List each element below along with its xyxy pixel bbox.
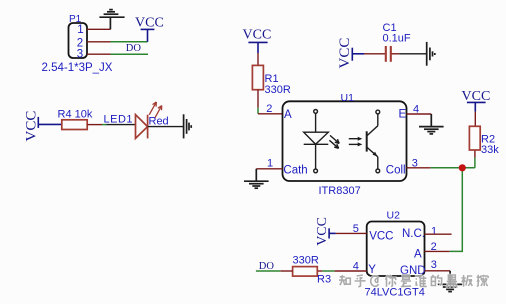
svg-text:1: 1 [77,24,83,36]
capacitor C1 [386,46,391,62]
svg-text:VCC: VCC [337,38,353,69]
svg-text:2: 2 [266,103,272,115]
U2 pin 1 lead (N.C.) [425,233,452,235]
resistor R2 [469,126,480,150]
svg-text:VCC: VCC [24,111,40,142]
wire VCC to R2 [474,112,476,127]
svg-text:VCC: VCC [243,27,272,42]
LED1 anode lead [107,124,136,126]
P1 pin 1 lead [87,28,111,30]
connector P1 [69,23,88,58]
ground (U2 GND) [438,271,463,292]
svg-text:VCC: VCC [369,231,393,243]
resistor R1 [252,65,263,89]
wire P1 pin2 to VCC [111,41,148,43]
svg-text:N.C.: N.C. [402,228,425,240]
svg-text:1: 1 [431,226,437,238]
svg-text:ITR8307: ITR8307 [319,185,361,197]
wire U1 Coll to R2 [431,167,475,169]
svg-text:Coll: Coll [386,165,406,177]
gate U2 [367,222,425,277]
P1 pin 3 lead [87,53,111,55]
svg-text:E: E [399,109,407,121]
ground (U1 Cath) [244,169,269,188]
U2 pin 5 lead [336,232,367,234]
R4 right lead [87,124,102,126]
svg-text:VCC: VCC [315,217,330,246]
U1 internal phototransistor [367,110,380,173]
optocoupler U1 [283,101,407,181]
U1 pin 4 lead [407,113,432,115]
svg-text:U2: U2 [387,210,401,222]
svg-text:0.1uF: 0.1uF [383,33,411,45]
wire U2 pin 2 to junction [450,168,463,252]
resistor R3 [293,267,318,277]
power VCC (top-left) [141,29,155,41]
wire LED1 cathode to ground [148,126,184,128]
P1 pin 2 lead [87,41,111,43]
U2 pin 4 lead [335,270,367,272]
wire up to R2 [474,158,476,168]
svg-text:Red: Red [149,115,169,127]
wire R3 to U2 pin 4 [322,270,334,272]
watermark 知乎 @你是谁的黑板擦 [339,275,488,287]
ground (right of LED1, rotated) [184,114,192,138]
svg-text:U1: U1 [341,92,355,104]
wire VCC to R1 [257,53,259,65]
R1 bottom lead [257,90,259,108]
svg-text:A: A [284,109,292,121]
wire C1 to ground [399,53,426,55]
svg-text:3: 3 [431,259,437,271]
U2 pin 3 lead [425,270,451,272]
R3 right lead [317,270,322,272]
ground (above P1 pin 1) [99,10,124,30]
wire R1 to U1 pin 2 [257,108,259,114]
svg-text:R4 10k: R4 10k [58,108,93,120]
svg-text:33k: 33k [481,144,499,156]
svg-text:DO: DO [259,261,275,272]
svg-text:VCC: VCC [135,16,164,31]
junction (Coll node) [459,164,466,171]
ground (right of C1, rotated) [427,42,435,66]
svg-text:Cath: Cath [283,165,307,177]
svg-text:R3: R3 [317,274,331,286]
svg-text:74LVC1GT4: 74LVC1GT4 [365,286,425,298]
U1 internal LED [304,110,329,173]
U2 pin 2 lead [425,250,450,252]
svg-text:330R: 330R [265,84,291,96]
U1 internal LED emission arrows [329,135,339,148]
U1 pin 2 lead [258,113,283,115]
svg-text:A: A [414,249,422,261]
svg-text:Y: Y [368,264,376,276]
svg-text:3: 3 [77,49,83,61]
svg-text:330R: 330R [293,254,319,266]
U1 pin 3 lead [407,167,431,169]
C1 left lead [364,53,385,55]
svg-text:1: 1 [267,158,273,170]
svg-text:LED1: LED1 [104,113,134,125]
U1 coupling arrows [349,137,363,147]
svg-text:DO: DO [126,43,142,54]
svg-text:2.54-1*3P_JX: 2.54-1*3P_JX [42,62,113,74]
R3 left lead [280,270,292,272]
wire R4 to LED1 [102,124,107,126]
LED1 light arrows [149,102,162,118]
wire P1 pin3 (DO net) [111,53,149,55]
resistor R4 [62,120,87,130]
C1 right lead [392,53,400,55]
U1 pin 1 lead [256,168,282,170]
wire DO to R3 [256,270,280,272]
R2 bottom lead [474,150,476,158]
LED LED1 [136,115,148,139]
ground (U1 E) [419,114,444,134]
